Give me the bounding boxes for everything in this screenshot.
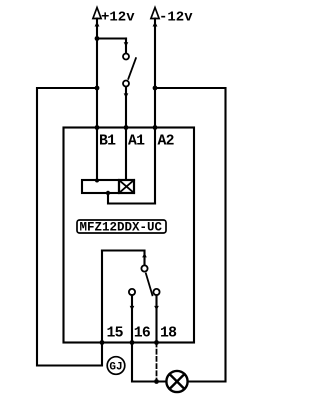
svg-text:A2: A2 xyxy=(158,134,175,150)
svg-text:A1: A1 xyxy=(128,134,145,150)
node terminal 15 xyxy=(100,340,105,345)
wire -12v vertical xyxy=(154,19,156,204)
relay contact 16 circle xyxy=(129,289,135,295)
svg-text:+12v: +12v xyxy=(101,10,135,26)
node terminal 16 xyxy=(130,340,135,345)
node terminal 18 xyxy=(154,340,159,345)
arrowhead on +12v lead xyxy=(95,22,100,27)
relay contact common circle xyxy=(141,265,147,271)
relay coil K1 body xyxy=(82,180,119,193)
svg-text:16: 16 xyxy=(134,326,151,342)
wire terminal 16 xyxy=(131,295,133,342)
device box MFZ12DDX-UC xyxy=(64,128,195,343)
node coil bottom xyxy=(106,191,110,195)
label box MFZ12DDX-UC xyxy=(77,220,166,233)
relay contact 18 circle xyxy=(153,289,159,295)
switch S1 (pushbutton to B1) xyxy=(123,39,136,181)
wire 18 dashed to lamp xyxy=(156,343,158,382)
supply arrow -12v xyxy=(151,8,159,204)
svg-text:15: 15 xyxy=(107,326,124,342)
lamp E1 xyxy=(166,371,187,392)
wire terminal 15 xyxy=(101,251,103,343)
svg-text:B1: B1 xyxy=(99,134,116,150)
svg-text:-12v: -12v xyxy=(159,10,193,26)
relay contact lever xyxy=(146,274,153,296)
node junction +12v / switch feed xyxy=(95,36,100,41)
node coil top / B1 wire xyxy=(95,179,99,183)
wire terminal 18 xyxy=(155,295,157,342)
wire 16 to lamp xyxy=(132,343,166,382)
svg-text:GJ: GJ xyxy=(109,362,122,374)
arrowhead on -12v lead xyxy=(153,22,158,27)
supply arrow +12v xyxy=(93,8,101,181)
frame right (-12v to lamp) xyxy=(155,88,226,382)
node A2 terminal xyxy=(153,125,158,130)
relay contact common feed xyxy=(102,251,145,266)
node frame / +12v wire xyxy=(95,86,100,91)
wire +12v vertical xyxy=(96,19,98,181)
node B1 terminal xyxy=(95,125,100,130)
svg-text:MFZ12DDX-UC: MFZ12DDX-UC xyxy=(80,221,163,235)
relay coil K1 X-box xyxy=(119,180,134,193)
wire switch feed horizontal xyxy=(97,37,126,39)
node A1 terminal xyxy=(124,125,129,130)
indicator GJ xyxy=(107,357,125,375)
frame left (+12v return loop) xyxy=(37,88,102,366)
wire coil bottom to A2 xyxy=(108,193,155,204)
svg-text:18: 18 xyxy=(160,326,177,342)
node 18 / lamp wire xyxy=(154,379,159,384)
node frame / -12v wire xyxy=(153,86,158,91)
